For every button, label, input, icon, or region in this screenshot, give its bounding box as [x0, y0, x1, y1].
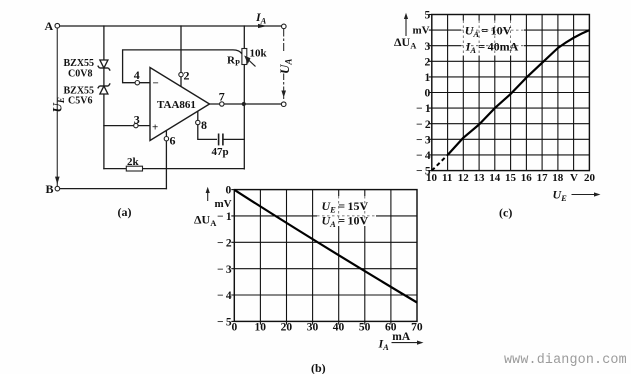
svg-text:4: 4 — [134, 68, 140, 82]
svg-text:2: 2 — [425, 56, 431, 68]
svg-text:3: 3 — [425, 41, 431, 53]
svg-text:UA = 10V: UA = 10V — [322, 213, 369, 229]
svg-text:70: 70 — [411, 322, 423, 334]
svg-text:0: 0 — [425, 88, 431, 100]
svg-text:− 1: − 1 — [416, 103, 431, 115]
svg-text:mV: mV — [215, 198, 232, 210]
svg-text:A: A — [45, 19, 54, 33]
svg-text:11: 11 — [442, 172, 452, 184]
svg-text:50: 50 — [359, 322, 371, 334]
svg-text:20: 20 — [584, 172, 596, 184]
svg-text:(c): (c) — [499, 206, 512, 220]
svg-text:UA = 10V: UA = 10V — [465, 24, 512, 40]
svg-text:+: + — [152, 122, 158, 134]
svg-text:−: − — [153, 78, 159, 90]
svg-text:ΔUA: ΔUA — [194, 213, 217, 229]
svg-text:16: 16 — [521, 172, 533, 184]
svg-text:12: 12 — [458, 172, 470, 184]
svg-text:UE: UE — [50, 97, 67, 112]
svg-text:6: 6 — [170, 134, 176, 148]
svg-text:47p: 47p — [212, 146, 229, 158]
svg-text:20: 20 — [281, 322, 293, 334]
svg-text:2: 2 — [184, 69, 190, 83]
svg-text:TAA861: TAA861 — [157, 99, 196, 111]
svg-text:(a): (a) — [118, 205, 132, 219]
svg-text:www.diangon.com: www.diangon.com — [504, 353, 627, 368]
svg-text:IA: IA — [378, 337, 390, 353]
svg-text:− 5: − 5 — [217, 317, 232, 329]
svg-text:8: 8 — [201, 118, 207, 132]
svg-text:17: 17 — [537, 172, 549, 184]
svg-text:B: B — [46, 182, 54, 196]
svg-text:V: V — [570, 172, 578, 184]
svg-text:− 2: − 2 — [416, 119, 431, 131]
svg-text:(b): (b) — [311, 361, 326, 374]
svg-text:C0V8: C0V8 — [68, 69, 92, 80]
svg-text:UE = 15V: UE = 15V — [322, 199, 369, 215]
svg-text:0: 0 — [226, 184, 232, 196]
svg-text:mV: mV — [413, 25, 430, 37]
svg-text:C5V6: C5V6 — [68, 96, 92, 107]
svg-text:− 1: − 1 — [217, 211, 232, 223]
svg-text:0: 0 — [232, 322, 238, 334]
svg-text:18: 18 — [552, 172, 564, 184]
svg-text:3: 3 — [134, 113, 140, 127]
svg-text:ΔUA: ΔUA — [394, 35, 417, 51]
svg-text:RP: RP — [227, 55, 240, 68]
svg-text:10: 10 — [255, 322, 267, 334]
svg-text:7: 7 — [219, 90, 225, 104]
svg-text:mA: mA — [392, 331, 411, 343]
svg-text:− 4: − 4 — [416, 150, 431, 162]
svg-text:− 2: − 2 — [217, 238, 232, 250]
svg-text:2k: 2k — [127, 156, 140, 168]
svg-text:1: 1 — [425, 72, 431, 84]
svg-text:BZX55: BZX55 — [64, 58, 95, 69]
svg-text:10: 10 — [426, 172, 438, 184]
svg-text:− 3: − 3 — [217, 264, 232, 276]
svg-text:− 4: − 4 — [217, 290, 232, 302]
svg-text:40: 40 — [333, 322, 345, 334]
svg-text:IA: IA — [255, 10, 267, 26]
svg-text:UE: UE — [553, 188, 568, 204]
svg-text:15: 15 — [505, 172, 517, 184]
svg-text:10k: 10k — [250, 48, 268, 60]
svg-text:5: 5 — [425, 10, 431, 22]
svg-text:− 3: − 3 — [416, 134, 431, 146]
svg-text:14: 14 — [489, 172, 501, 184]
svg-text:30: 30 — [307, 322, 319, 334]
svg-text:13: 13 — [474, 172, 486, 184]
